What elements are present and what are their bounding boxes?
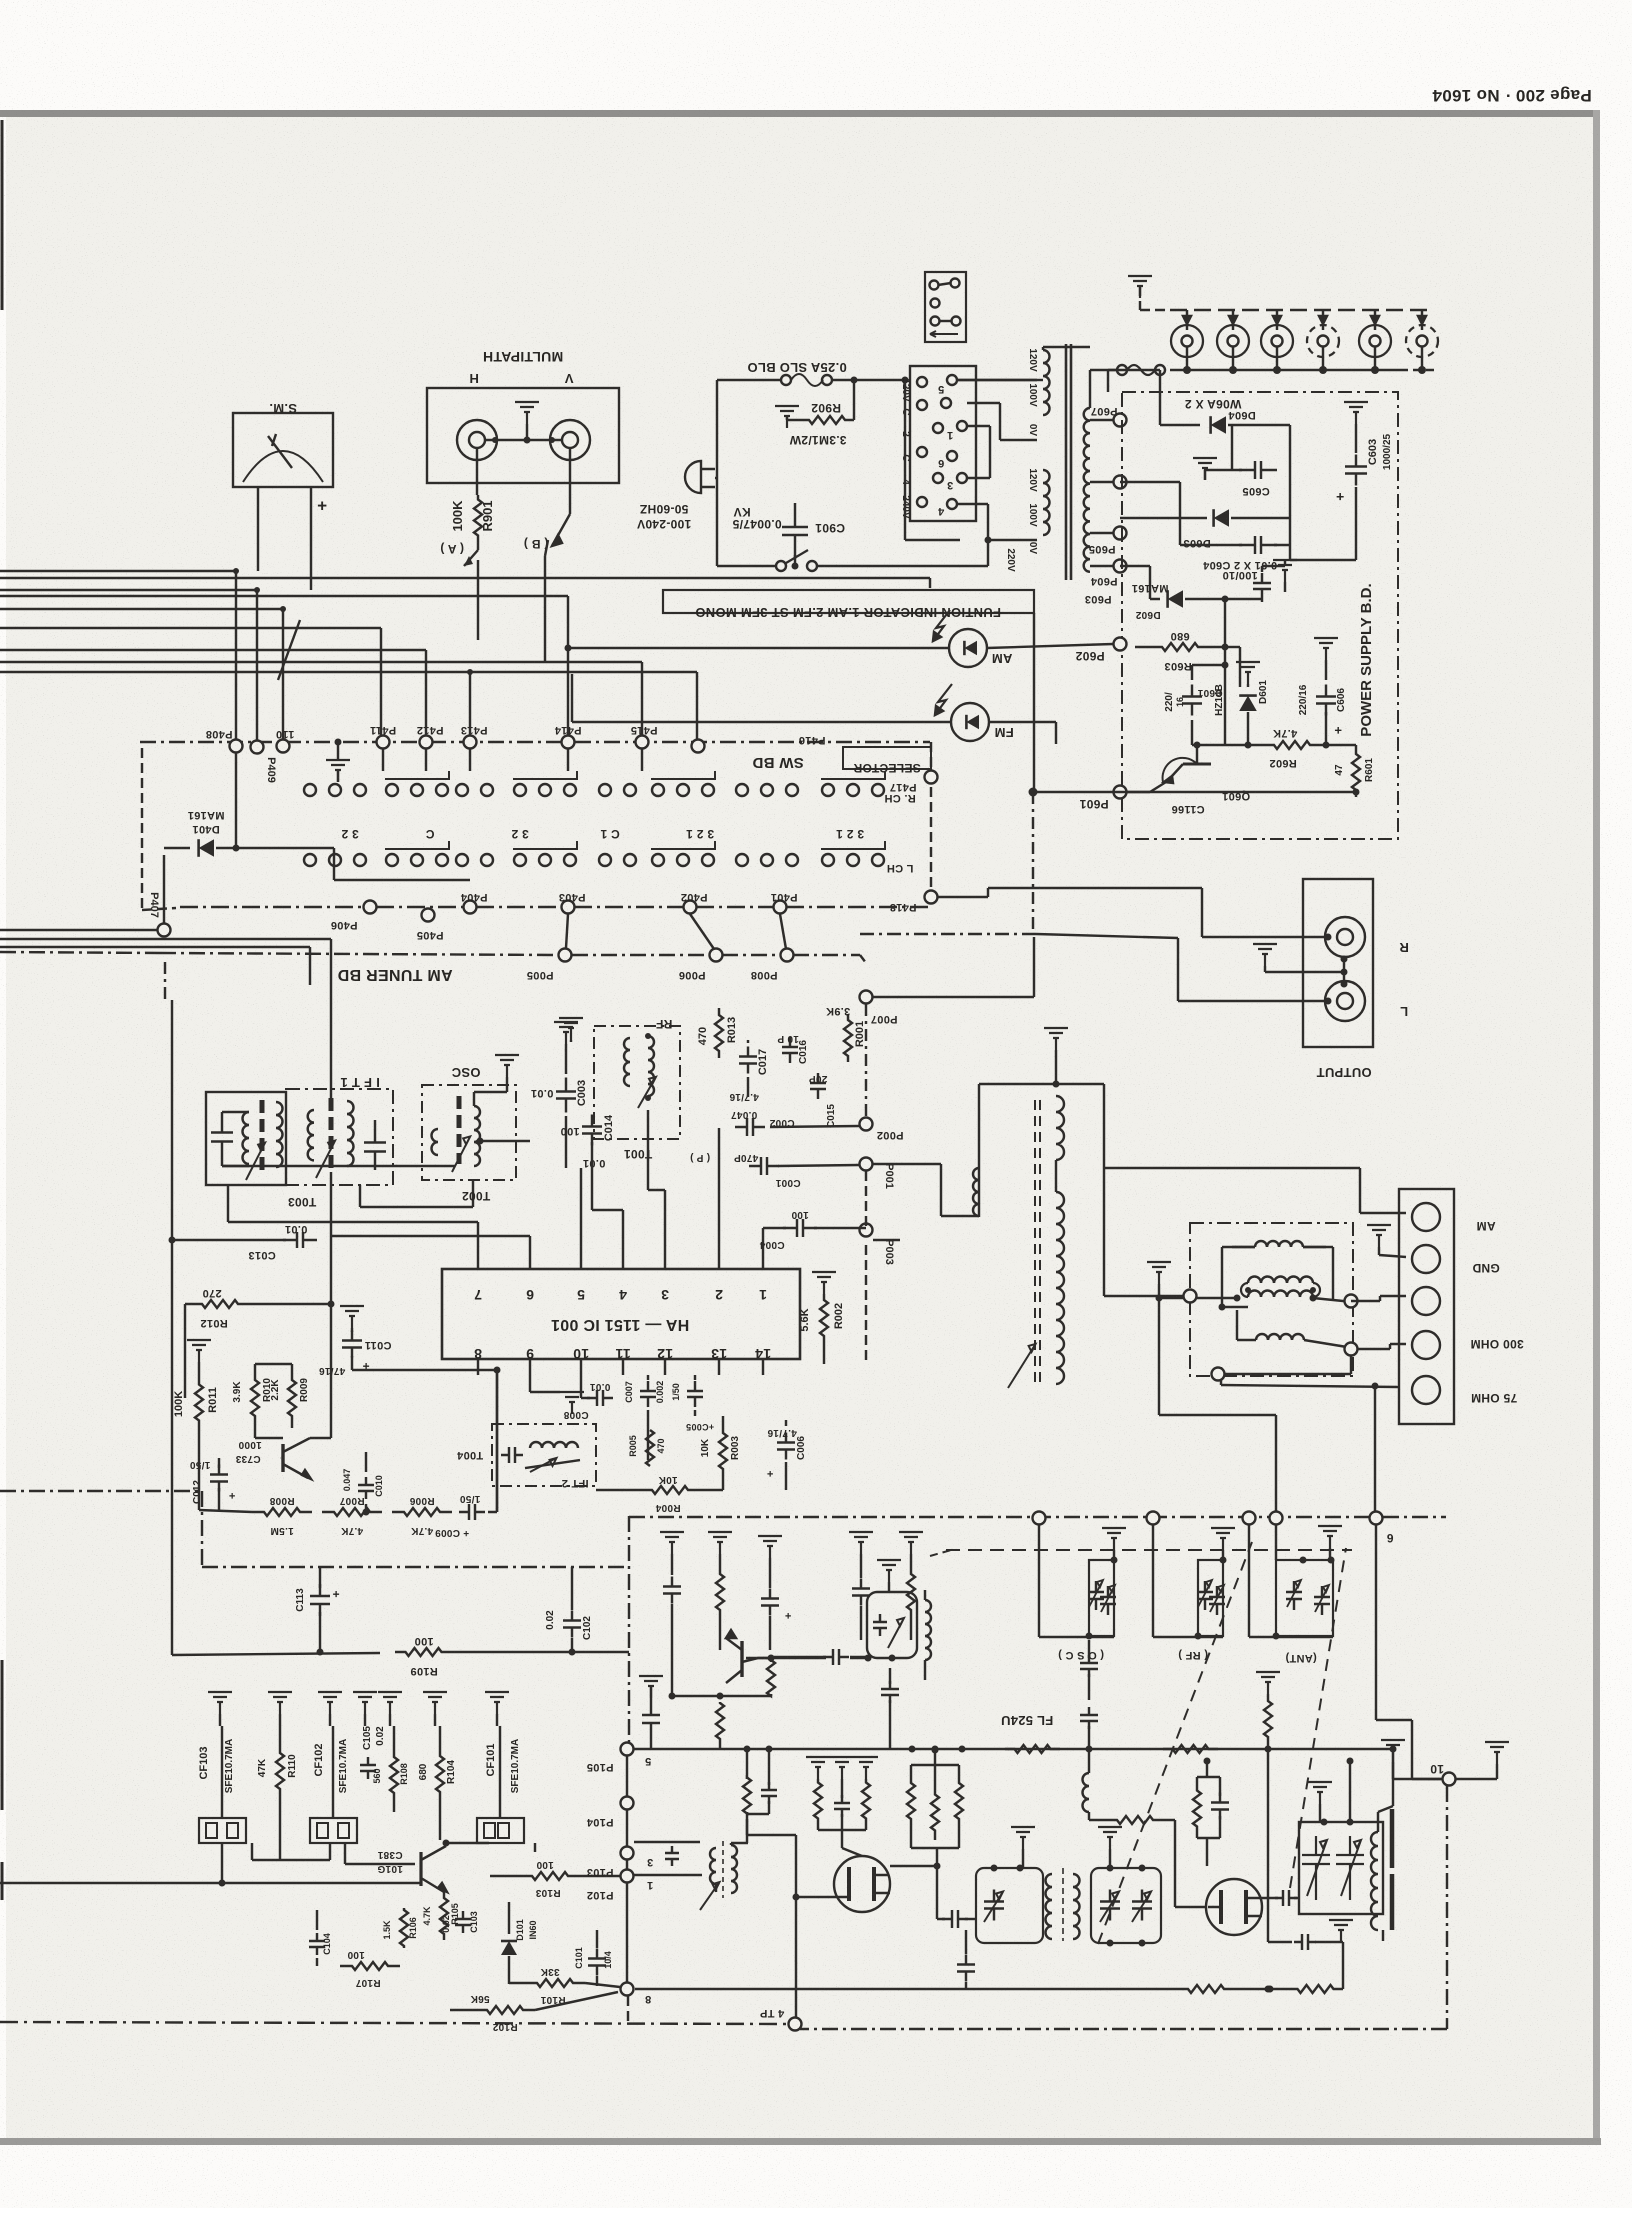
wire p003 run bbox=[865, 1245, 867, 1364]
wire output R bbox=[938, 888, 1328, 937]
fm osc coil bbox=[1083, 1749, 1090, 1820]
lamp PL2 bbox=[1217, 310, 1249, 374]
diode D101 IN60 bbox=[501, 1902, 538, 1984]
fm right vertical drop bbox=[1390, 1746, 1397, 1807]
ground multipath bbox=[485, 402, 562, 444]
wire bus line2 long bbox=[0, 578, 930, 588]
page border right strip bbox=[1593, 110, 1600, 2145]
output jack box bbox=[1303, 879, 1373, 1080]
connector P403 bbox=[559, 891, 586, 914]
transformer primary lower coil bbox=[1005, 468, 1050, 572]
selector board right edge bbox=[930, 742, 932, 897]
node 110 bbox=[276, 728, 295, 753]
resistor R101 33K bbox=[509, 1966, 620, 2005]
transformer secondary coil bbox=[1084, 370, 1120, 572]
connector P003 bbox=[860, 1171, 896, 1265]
capacitor C014 0.01 bbox=[560, 1114, 615, 1169]
fm if cluster 2 bbox=[708, 1532, 732, 1650]
fm bottom caps row bbox=[957, 1930, 975, 1989]
ground sw bd bbox=[326, 739, 350, 783]
wire tuner right column bbox=[873, 1239, 900, 1241]
antenna coil core bbox=[1035, 1100, 1040, 1384]
lamp PL4 bbox=[1307, 310, 1339, 374]
wire 75 ohm feed bbox=[1221, 1383, 1400, 1519]
rf box bbox=[594, 1017, 680, 1161]
diode D603 bbox=[1120, 509, 1290, 549]
fm rc above q202 bbox=[1193, 1758, 1229, 1867]
wire bus line6 bbox=[0, 650, 426, 735]
connector P006 bbox=[679, 949, 723, 982]
fm transistor q102 bbox=[726, 1630, 775, 1683]
fm gate cap q202 bbox=[1262, 1890, 1299, 1906]
transformer core bbox=[1066, 344, 1071, 580]
filter CF102 symbol bbox=[310, 1818, 357, 1843]
transistor Q601 C1166 bbox=[1150, 742, 1250, 816]
terminal mid bbox=[1412, 1287, 1440, 1315]
ground osc bbox=[495, 1055, 519, 1077]
wire bus line5 bbox=[0, 628, 381, 735]
node line 6 rail bbox=[0, 1491, 1446, 1567]
connector P414 bbox=[554, 724, 581, 749]
junction circles rail bbox=[1033, 1512, 1283, 1525]
label selector sw bd bbox=[752, 747, 931, 775]
fm resistor right column bbox=[1256, 1672, 1280, 1879]
fm coupling cap bbox=[770, 1649, 867, 1665]
node 6 to node 10 wire bbox=[1376, 1524, 1441, 1779]
tuning gang ANT bbox=[1249, 1524, 1342, 1664]
diode D401 MA161 bbox=[164, 753, 470, 880]
fm if cluster 1 bbox=[660, 1532, 684, 1696]
connector P411 bbox=[370, 724, 396, 749]
wire p403 to p005 link bbox=[566, 914, 568, 948]
capacitor 20P C015 bbox=[809, 1073, 837, 1128]
connector P601 bbox=[1079, 786, 1359, 812]
svg-text:Page 200 · No 1604: Page 200 · No 1604 bbox=[1432, 86, 1592, 105]
fm t202 can bbox=[1091, 1865, 1161, 1947]
led FM bbox=[935, 684, 1014, 741]
wire bus line3 bbox=[0, 587, 260, 740]
connector P413 bbox=[461, 724, 488, 749]
terminal 300 OHM bbox=[1412, 1331, 1524, 1359]
wire fuse to selector bbox=[854, 377, 909, 384]
ic001 bottom pins bbox=[474, 1346, 771, 1375]
ift1 contents bbox=[308, 1098, 386, 1178]
wire selector bottom rail bbox=[985, 537, 992, 567]
am tuner board boundary bbox=[0, 952, 860, 983]
wire lamp bus top bbox=[1170, 309, 1428, 311]
connector P602 bbox=[1075, 638, 1126, 664]
fm board boundary vertical bbox=[627, 1516, 629, 2023]
resistor R603 680 bbox=[1135, 596, 1240, 673]
balun coil bottom bbox=[1256, 1334, 1304, 1340]
transformer T003 contents bbox=[211, 1100, 283, 1180]
fm q201 gate network bbox=[747, 1819, 836, 2021]
fm fet Q202 bbox=[1206, 1879, 1262, 1935]
connector P002 bbox=[770, 1118, 903, 1142]
wire am feed bbox=[1104, 1168, 1406, 1213]
connector P102 bbox=[587, 1870, 654, 1902]
node 6 bbox=[1370, 1512, 1394, 1546]
connector P412 bbox=[417, 724, 444, 749]
label function indicator bbox=[663, 590, 1034, 620]
terminal AM bbox=[1412, 1203, 1496, 1233]
balun inner wires bbox=[1197, 1247, 1353, 1385]
wire sw bottom rail bbox=[180, 906, 931, 908]
fm right can ground bbox=[1308, 1782, 1332, 1822]
gang dashed rail bbox=[946, 1549, 1352, 1551]
ground fm 497 bbox=[485, 1692, 509, 1726]
balun box bbox=[1190, 1223, 1353, 1376]
balun terminals bbox=[1184, 1290, 1358, 1381]
fl524 cap 1 bbox=[1080, 1640, 1098, 1700]
diode D604 bbox=[1185, 397, 1290, 518]
connector P404 bbox=[460, 891, 487, 914]
ground lamps bbox=[1128, 276, 1170, 310]
ground terminal gnd bbox=[1367, 1225, 1406, 1257]
fm right can feed bbox=[1347, 1758, 1354, 1823]
connector P402 bbox=[681, 891, 708, 914]
fm t202 coils bbox=[1046, 1868, 1080, 1941]
capacitor C603 1000/25 bbox=[1290, 402, 1393, 560]
resistor R902 3.3M1/2W bbox=[775, 380, 854, 447]
capacitor C012 1/50 bbox=[190, 1458, 236, 1510]
fm cluster above q201 right bbox=[907, 1747, 963, 1867]
filter CF103 bbox=[198, 1726, 235, 1818]
filter CF101 bbox=[485, 1726, 521, 1818]
fm right trim can bbox=[1299, 1819, 1383, 1915]
connector P406 bbox=[331, 901, 377, 932]
meter plus terminal bbox=[317, 496, 327, 515]
resistor R103 100 bbox=[490, 1859, 620, 1898]
transistor Q101 C381 bbox=[377, 1840, 447, 1892]
fm cap below can bbox=[881, 1668, 899, 1749]
antenna coil upper bbox=[1056, 1096, 1064, 1160]
filter CF103 symbol bbox=[199, 1818, 246, 1843]
ground ic pin9 bbox=[530, 1375, 584, 1414]
wire p4xx stubs bbox=[383, 749, 642, 771]
connector P408 bbox=[206, 728, 243, 753]
fm if can coil bbox=[925, 1590, 931, 1680]
ift2 box bbox=[456, 1424, 596, 1489]
fm if cluster 3 bbox=[758, 1536, 791, 1650]
capacitor C104 bbox=[309, 1910, 332, 1966]
resistor R109 100 bbox=[172, 1635, 629, 1677]
fm osc feedback column bbox=[743, 1746, 777, 1844]
led AM bbox=[933, 610, 1012, 667]
resistor R010 3.9K bbox=[232, 1368, 273, 1428]
zener D601 HZ14B bbox=[1214, 662, 1269, 745]
capacitor C103 0.02 bbox=[441, 1911, 479, 1933]
wire ift1 below bbox=[360, 1179, 473, 1207]
capacitor C004 0.01 bbox=[759, 1209, 866, 1250]
wire am tuner to fm long1 bbox=[496, 1370, 498, 1512]
ground fm 280 bbox=[268, 1692, 292, 1726]
page border top strip bbox=[0, 110, 1600, 117]
resistor R104 680 bbox=[418, 1726, 457, 1840]
fm main bus bbox=[634, 1746, 1393, 1753]
capacitor C001 470P bbox=[690, 1152, 801, 1188]
ground balun bbox=[1147, 1262, 1276, 1519]
connector P105 bbox=[587, 1743, 652, 1774]
capacitor C017 4.7/16 bbox=[729, 1040, 769, 1102]
capacitor C113 bbox=[295, 1567, 340, 1656]
resistor R006 4.7K bbox=[392, 1495, 452, 1536]
resistor R003 10K bbox=[700, 1416, 741, 1490]
wire led AM bbox=[565, 644, 1114, 652]
meter S.M. bbox=[233, 401, 333, 487]
secondary taps bbox=[1085, 405, 1127, 605]
connector P007 bbox=[860, 991, 898, 1026]
fm if can T101 bbox=[867, 1560, 917, 1658]
wire fm left bottom bbox=[0, 1939, 1, 1941]
multipath box bbox=[427, 349, 619, 483]
wire ic top connections bbox=[228, 1110, 786, 1255]
lamp PL1 bbox=[1171, 310, 1203, 374]
resistor R001 3.9K bbox=[826, 1005, 866, 1062]
capacitor C009 1/50 bbox=[435, 1370, 497, 1538]
connector P418 bbox=[890, 891, 938, 914]
fm q102 base resistor bbox=[716, 1702, 724, 1749]
ic001 top pins bbox=[474, 1255, 767, 1303]
connector P401 bbox=[771, 891, 798, 914]
resistor R108 560 bbox=[372, 1726, 409, 1812]
fm board bottom rail bbox=[0, 2022, 786, 2024]
wire left column lower bbox=[165, 962, 172, 1655]
fm boundary right bbox=[800, 1786, 1447, 2029]
wire antenna top bbox=[979, 1084, 1104, 1217]
wire function box feed bbox=[1033, 613, 1035, 792]
fm osc transformer T102 bbox=[634, 1841, 748, 1910]
wire ps mid bbox=[1225, 647, 1240, 745]
gang dashed diagonal 2 bbox=[1290, 1548, 1346, 1888]
balun coil mid bbox=[1241, 1277, 1320, 1297]
transformer ift2 bbox=[501, 1442, 580, 1472]
lamp PL6 bbox=[1406, 310, 1438, 374]
ground fm 365 bbox=[353, 1692, 377, 1726]
fm if left wiring bbox=[0, 1843, 421, 1887]
wire bus line1 bbox=[0, 568, 239, 739]
connector P417 bbox=[890, 771, 938, 794]
resistor R102 56K bbox=[450, 1992, 618, 2032]
transformer T003 box bbox=[206, 1092, 316, 1209]
wire bus line4 bbox=[0, 606, 286, 739]
cable slash mark bbox=[278, 620, 300, 680]
tuning gang RF bbox=[1153, 1524, 1235, 1661]
resistor R107 100 bbox=[340, 1949, 400, 1988]
resistor R002 5.6K bbox=[799, 1272, 845, 1364]
fm bottom resistors bbox=[0, 0, 1343, 1993]
fm q202 vertical bbox=[1267, 1749, 1269, 1942]
wire meter drop bbox=[258, 570, 311, 590]
wire jack H lead bbox=[476, 448, 478, 495]
wire meter leads bbox=[258, 487, 311, 588]
resistor R007 4.7K bbox=[322, 1495, 382, 1536]
fm q201 drain wire bbox=[890, 1863, 945, 1920]
fm node8 bus bbox=[635, 1988, 1176, 1990]
terminal 75 OHM bbox=[1412, 1376, 1517, 1405]
antenna bar coil small bbox=[873, 1164, 979, 1216]
wire bus line7 bbox=[0, 669, 697, 739]
wire p008 rail corner bbox=[860, 955, 866, 963]
resistor R601 47 bbox=[1316, 745, 1375, 797]
ground fm 390 bbox=[378, 1692, 402, 1726]
connector P103 bbox=[587, 1847, 654, 1879]
ground fm 330 bbox=[318, 1692, 342, 1726]
connector P409 bbox=[251, 741, 278, 783]
capacitor C105 0.02 bbox=[360, 1726, 386, 1779]
label FL524U bbox=[1001, 1713, 1053, 1728]
resistor R013 470 bbox=[697, 1008, 738, 1058]
wire bus line8 bbox=[0, 596, 568, 735]
wires selector to transformer bbox=[957, 379, 1037, 381]
connector P407 bbox=[148, 855, 171, 937]
resistor R012 270 bbox=[185, 1287, 335, 1329]
wire ps top bbox=[1120, 370, 1200, 425]
jack R bbox=[1325, 917, 1409, 957]
connector P001 bbox=[778, 1158, 895, 1189]
fm bus resistor 1 bbox=[1005, 1745, 1060, 1753]
switch contacts R channel bbox=[304, 771, 916, 804]
osc box bbox=[422, 1065, 516, 1203]
resistor R106 1.5K bbox=[382, 1908, 418, 1948]
wire bus line9 bbox=[0, 662, 642, 735]
capacitor C016 10P bbox=[777, 1033, 809, 1064]
fm if cluster 5 bbox=[899, 1532, 923, 1640]
capacitor C102 0.02 bbox=[545, 1567, 593, 1656]
gang dashed diagonal 3 bbox=[930, 1549, 955, 1556]
connector P104 bbox=[586, 1797, 634, 1829]
capacitor C005 1/50 bbox=[671, 1375, 714, 1432]
wire ps bottom to board edge bbox=[1029, 788, 1151, 935]
wire p007 bbox=[866, 937, 1034, 1117]
lamp PL5 bbox=[1359, 310, 1391, 374]
resistor R004 10K bbox=[596, 1474, 723, 1513]
capacitor C002 0.047 bbox=[731, 1109, 795, 1136]
capacitor C011 47/16 bbox=[319, 1306, 501, 1376]
jack V bbox=[550, 420, 590, 460]
connector P415 bbox=[631, 724, 658, 749]
fm bus resistor 2 bbox=[1163, 1745, 1218, 1753]
wire r008 row left bbox=[199, 1510, 252, 1512]
capacitor C010 0.047 bbox=[342, 1452, 384, 1516]
ground fm 435 bbox=[423, 1692, 447, 1726]
transformer primary upper coil bbox=[1027, 347, 1090, 436]
connector P416 bbox=[692, 734, 826, 753]
antenna terminal box bbox=[1399, 1189, 1454, 1424]
resistor R005 470 bbox=[628, 1430, 666, 1466]
tuning gang OSC bbox=[1039, 1524, 1126, 1661]
wire output L bbox=[860, 934, 1328, 1001]
wire balun links bbox=[1104, 1296, 1406, 1374]
ground output bbox=[1253, 944, 1348, 988]
wire multipath drops bbox=[478, 540, 548, 662]
fm cluster above q201 left bbox=[806, 1757, 878, 1856]
capacitor C101 10/4 bbox=[574, 1930, 613, 1986]
fm fet Q201 bbox=[834, 1856, 890, 1912]
wire q001 wires bbox=[199, 1304, 331, 1510]
wire lamp bus bottom bbox=[1170, 369, 1438, 371]
fl524 cap 2 bbox=[1080, 1707, 1098, 1749]
selector board left edge bbox=[142, 748, 176, 910]
fm osc feedback resistor bbox=[1089, 1816, 1206, 1907]
wire p407 area bbox=[0, 929, 157, 931]
ground fm 220 bbox=[208, 1692, 232, 1726]
capacitor C606 220/16 bbox=[1298, 638, 1347, 749]
resistor R901 100K bbox=[440, 495, 495, 566]
fuse lamp string bbox=[1108, 365, 1165, 392]
capacitor C007 0.002 bbox=[624, 1375, 665, 1460]
gang dashed diagonal 1 bbox=[1098, 1542, 1252, 1944]
page number text bbox=[1432, 86, 1592, 105]
ift1 box bbox=[286, 1075, 393, 1185]
fm can grounds bbox=[1011, 1827, 1122, 1868]
switch labels row bbox=[341, 827, 864, 841]
resistor R110 47K bbox=[257, 1726, 298, 1860]
jack L bbox=[1325, 981, 1409, 1021]
fm tp connector bbox=[760, 2007, 802, 2031]
connector P005 bbox=[527, 949, 572, 982]
transformer T002 bbox=[432, 1077, 530, 1172]
ground antenna coil bbox=[1044, 1028, 1068, 1088]
fm q102 collector wire bbox=[746, 1655, 896, 1662]
balun coil top bbox=[1232, 1241, 1326, 1247]
ground rf bbox=[559, 1018, 583, 1042]
wire gang feeds bbox=[1103, 1168, 1105, 1296]
connector P405 bbox=[417, 909, 444, 942]
filter CF102 bbox=[313, 1726, 349, 1818]
lamp PL3 bbox=[1261, 310, 1293, 374]
connector P008 bbox=[751, 949, 794, 982]
switch contacts L channel bbox=[304, 841, 913, 874]
wire ift1 bottom rail bbox=[222, 1165, 455, 1167]
plug AC bbox=[637, 461, 715, 531]
selector contacts bbox=[900, 375, 967, 519]
transformer T001 bbox=[624, 1033, 656, 1108]
capacitor C601 220/16 bbox=[1164, 662, 1229, 746]
fm q102 collector resistor bbox=[767, 1660, 775, 1696]
fm node 10 bbox=[1381, 1740, 1509, 1786]
antenna coil long bbox=[1008, 1160, 1064, 1388]
power supply board boundary bbox=[1122, 392, 1398, 839]
resistor R602 4.7K bbox=[1192, 727, 1316, 769]
fm right coil bbox=[1371, 1806, 1393, 1941]
resistor R009 2.2K bbox=[255, 1364, 310, 1428]
capacitor C008 0.01 bbox=[563, 1375, 613, 1420]
wire plug to fuse bbox=[715, 380, 782, 566]
switch power bbox=[717, 550, 988, 571]
wire left drop to tuner bbox=[0, 939, 331, 1304]
transistor Q001 C733 bbox=[235, 1438, 311, 1479]
fm t201 can bbox=[976, 1865, 1043, 1944]
selector board top rail bbox=[140, 741, 930, 743]
resistor R105 4.7K bbox=[422, 1892, 460, 1940]
capacitor C901 0.0047/5 KV bbox=[732, 503, 845, 570]
connector block small bbox=[925, 272, 966, 342]
fm cf101 wiring bbox=[345, 1840, 535, 1865]
resistor R011 100K bbox=[173, 1340, 219, 1430]
wire left vertical R012 bbox=[184, 1304, 186, 1398]
terminal GND bbox=[1412, 1245, 1500, 1275]
wire p402 to p006 link bbox=[690, 914, 714, 949]
fuse 0.25A SLO BLO bbox=[747, 360, 857, 386]
wire jack V switch B bbox=[524, 448, 570, 551]
capacitor C003 0.01 bbox=[531, 1022, 588, 1168]
label POWER SUPPLY BD bbox=[1358, 583, 1375, 736]
fm node 8 bbox=[621, 1983, 652, 2006]
diode D602 MA161 bbox=[1120, 566, 1262, 620]
resistor R008 1.5M bbox=[252, 1495, 312, 1536]
capacitor C605 ps bbox=[1193, 425, 1277, 497]
